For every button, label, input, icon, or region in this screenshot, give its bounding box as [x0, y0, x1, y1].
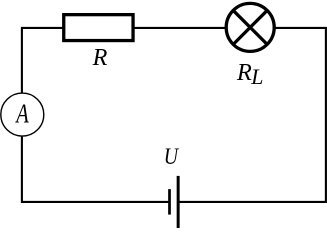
svg-text:L: L — [250, 65, 263, 89]
svg-text:A: A — [15, 100, 30, 129]
svg-text:R: R — [92, 44, 108, 71]
svg-text:U: U — [164, 143, 180, 169]
svg-text:R: R — [236, 59, 252, 86]
